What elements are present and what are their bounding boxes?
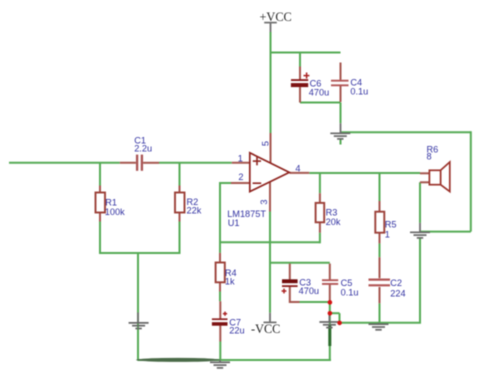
svg-text:8: 8 xyxy=(427,151,432,161)
svg-text:0.1u: 0.1u xyxy=(341,287,359,297)
svg-text:2: 2 xyxy=(238,172,243,182)
svg-text:-VCC: -VCC xyxy=(251,322,280,336)
svg-text:1k: 1k xyxy=(225,276,235,286)
svg-text:22k: 22k xyxy=(187,205,202,215)
svg-text:R5: R5 xyxy=(385,219,397,229)
svg-text:+VCC: +VCC xyxy=(260,10,292,24)
svg-text:1: 1 xyxy=(238,153,243,163)
svg-text:22u: 22u xyxy=(229,325,244,335)
svg-text:470u: 470u xyxy=(299,286,319,296)
svg-text:470u: 470u xyxy=(309,87,329,97)
svg-text:100k: 100k xyxy=(105,207,125,217)
svg-text:4: 4 xyxy=(295,163,300,173)
svg-text:0.1u: 0.1u xyxy=(350,86,368,96)
svg-text:1: 1 xyxy=(385,230,390,240)
svg-text:C2: C2 xyxy=(390,278,402,288)
svg-text:U1: U1 xyxy=(228,218,240,228)
svg-text:2.2u: 2.2u xyxy=(134,144,152,154)
svg-text:224: 224 xyxy=(390,288,405,298)
svg-text:5: 5 xyxy=(261,141,271,146)
svg-text:3: 3 xyxy=(259,199,269,204)
svg-text:R1: R1 xyxy=(105,197,117,207)
svg-text:20k: 20k xyxy=(326,217,341,227)
